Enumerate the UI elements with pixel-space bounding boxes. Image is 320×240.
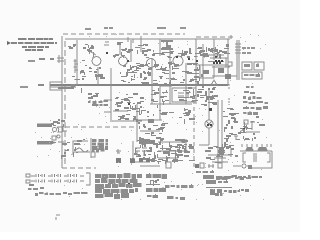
label <box>104 27 114 29</box>
grid leak components <box>51 119 65 127</box>
stage labels <box>20 28 256 87</box>
terminal dark dot <box>195 164 199 168</box>
row 2 connector wire <box>31 180 84 182</box>
filament wire <box>64 41 66 166</box>
B+ supply wire <box>65 38 230 40</box>
terminal strip row 1b <box>254 62 264 70</box>
tone network components <box>138 120 168 141</box>
can terminal <box>91 152 95 157</box>
output transformer labels <box>214 51 230 59</box>
output tube V5 <box>205 120 213 128</box>
parts list block 1 <box>95 173 142 199</box>
capacitor C9 <box>135 148 140 156</box>
terminal strip row 2 <box>242 72 262 79</box>
terminal box <box>200 163 204 168</box>
RF stage components <box>83 44 94 57</box>
wire <box>151 58 153 104</box>
wire <box>110 68 112 122</box>
cell group 3 <box>68 174 77 177</box>
tube socket V4 top view <box>208 55 228 62</box>
interstage components <box>153 105 195 124</box>
tube V3 <box>147 59 156 68</box>
toothed bar <box>139 140 155 144</box>
wire <box>247 165 251 167</box>
wire <box>133 161 150 163</box>
cell group 1 <box>36 174 45 177</box>
filter squiggle <box>76 148 88 152</box>
wire <box>140 36 142 52</box>
screen divider components <box>88 93 99 99</box>
coupling network components <box>130 63 152 84</box>
cathode bias components <box>71 76 86 93</box>
tuning components <box>174 87 198 102</box>
wire <box>140 130 160 132</box>
detector box wire <box>160 86 172 100</box>
power filter components <box>134 138 195 164</box>
junction blob <box>148 119 154 123</box>
screen bus wire <box>150 103 192 105</box>
padder capacitor C5 <box>178 92 188 98</box>
wire <box>137 119 162 121</box>
AVC bus wire <box>50 86 76 88</box>
filament network components <box>61 139 85 159</box>
main B- bus wire <box>50 84 228 86</box>
speaker voice coil <box>53 128 57 132</box>
shield dashed wire <box>193 100 195 170</box>
capacitor C10 <box>142 148 147 156</box>
cell group 2 <box>52 174 61 177</box>
wire <box>227 39 229 85</box>
wire <box>159 39 161 56</box>
bench mark <box>56 215 60 220</box>
detector box <box>172 88 196 102</box>
polarity dots <box>29 175 73 186</box>
shelf wire <box>112 120 142 122</box>
label <box>157 27 166 29</box>
terminal ticks <box>242 144 271 147</box>
tube V4 <box>173 56 183 66</box>
blob relay <box>219 148 224 155</box>
IF stage components <box>152 45 174 58</box>
wire <box>185 63 187 104</box>
title text block <box>7 38 57 51</box>
cell group 6 <box>68 180 77 183</box>
cathode components <box>94 67 105 80</box>
socket pin dots <box>215 60 223 62</box>
note column text <box>243 63 268 115</box>
IF transformer T1 <box>161 41 173 49</box>
filter unit label <box>92 139 108 153</box>
field coil box <box>52 136 56 140</box>
parts list block 2 <box>146 173 167 198</box>
filter base wire <box>74 151 90 153</box>
plug box labels <box>115 97 141 121</box>
resistor R1 <box>74 59 79 73</box>
oscillator components <box>151 88 169 105</box>
label <box>242 47 256 49</box>
scan speckle <box>35 34 267 200</box>
filter bracket <box>73 141 88 155</box>
rectifier flag <box>244 120 248 124</box>
vibrator bracket left <box>243 153 246 162</box>
wire <box>199 144 209 146</box>
audio driver components <box>197 86 218 106</box>
terminal blob 4 <box>146 158 150 162</box>
bus wire <box>158 141 186 143</box>
terminal blob 2 <box>130 158 135 163</box>
plate wire V1 <box>97 67 99 85</box>
fuse block <box>248 165 252 169</box>
socket shell box <box>196 65 228 78</box>
output tube V5 electrodes <box>206 121 212 127</box>
cathode wire V5 <box>208 128 210 145</box>
winding hump A <box>245 147 254 151</box>
output stage components <box>222 108 239 158</box>
grid cap wire <box>88 50 96 55</box>
row 1 connector wire <box>31 175 84 177</box>
chassis left wire <box>61 36 63 168</box>
tube socket pins <box>52 52 245 185</box>
cell group 5 <box>52 180 61 183</box>
upper cluster lines <box>208 148 231 162</box>
wire <box>130 40 132 62</box>
wire <box>221 100 223 167</box>
resistor R10 <box>218 163 222 168</box>
strip wire <box>212 75 237 77</box>
grid column dashes <box>104 39 110 45</box>
wire <box>158 157 178 159</box>
label <box>20 86 28 88</box>
captions <box>28 170 257 200</box>
bus solder bar <box>58 87 74 89</box>
terminal blob 1 <box>116 158 121 163</box>
oscillator grid components <box>197 44 229 52</box>
wire <box>119 44 121 55</box>
shell blobs <box>203 68 231 79</box>
AVC network components <box>180 63 203 84</box>
ladder ticks <box>235 44 241 53</box>
cell group 4 <box>36 180 45 183</box>
winding bus wire <box>240 150 272 152</box>
right return wire <box>252 151 272 168</box>
winding hump B <box>257 147 268 151</box>
dashed shield wire <box>57 126 135 128</box>
vibrator bracket right <box>267 153 270 162</box>
jack plug connector <box>228 62 232 66</box>
label <box>28 60 35 62</box>
terminal strip row 1a <box>242 62 252 70</box>
voice coil tail <box>57 126 67 132</box>
wire <box>159 100 161 120</box>
trimmer plus mark <box>126 37 133 43</box>
column dashes <box>228 84 230 105</box>
screen label blob <box>88 100 108 106</box>
rectifier lead wire <box>250 122 255 130</box>
wire <box>185 139 187 152</box>
label <box>242 52 252 54</box>
speaker transformer T2 <box>37 58 57 145</box>
ground bus wire <box>158 150 188 152</box>
antenna trimmer components <box>68 44 76 49</box>
ground G1 <box>116 149 121 153</box>
filament dropping wire <box>236 40 238 80</box>
bias network components <box>80 60 92 75</box>
bracket <box>86 173 90 185</box>
lamp lead wire <box>233 165 241 167</box>
plug <box>26 174 30 183</box>
legend block <box>203 175 262 196</box>
output socket components <box>205 146 233 163</box>
tab wire <box>104 100 112 112</box>
plus mark <box>229 35 233 39</box>
wire <box>202 44 204 85</box>
chassis dashed top wire <box>63 33 185 35</box>
grid wire V1 <box>76 40 78 85</box>
wire <box>136 104 138 142</box>
filament dropping wire <box>238 40 240 80</box>
wire <box>169 50 171 104</box>
wire <box>213 39 215 60</box>
tube V2 <box>119 57 128 66</box>
on-off switch S2 <box>240 127 260 132</box>
wire <box>140 165 160 167</box>
tube V1 <box>92 57 101 66</box>
jack J1 <box>208 164 214 168</box>
pilot lamp P1 <box>242 164 246 168</box>
magnet lead <box>58 141 64 143</box>
second IF components <box>178 48 230 58</box>
divider wire <box>113 110 128 112</box>
label <box>180 27 186 29</box>
wire <box>217 100 219 165</box>
plate load components <box>120 65 135 83</box>
coil box B2 <box>166 162 171 168</box>
field coil circle <box>57 135 60 138</box>
speaker jack box <box>212 58 230 67</box>
rectifier components <box>236 116 265 141</box>
antenna coupling hash <box>57 55 64 63</box>
switch label mark <box>234 136 238 140</box>
alignment triangle <box>211 80 217 85</box>
wire <box>195 39 197 104</box>
electrolytic can C6 <box>90 138 92 158</box>
converter stage components <box>113 42 151 58</box>
battery cable assembly <box>26 173 90 185</box>
chassis dashed top right wire <box>196 36 231 38</box>
terminal blob 3 <box>139 158 143 162</box>
plate wire V5 <box>208 90 210 120</box>
chassis bottom dashed wire <box>62 167 96 169</box>
loop antenna L0 <box>50 82 62 90</box>
volume network components <box>117 93 149 122</box>
detector components <box>153 62 179 85</box>
label <box>85 28 91 30</box>
vibrator center lines <box>254 153 256 162</box>
wire <box>132 141 134 162</box>
